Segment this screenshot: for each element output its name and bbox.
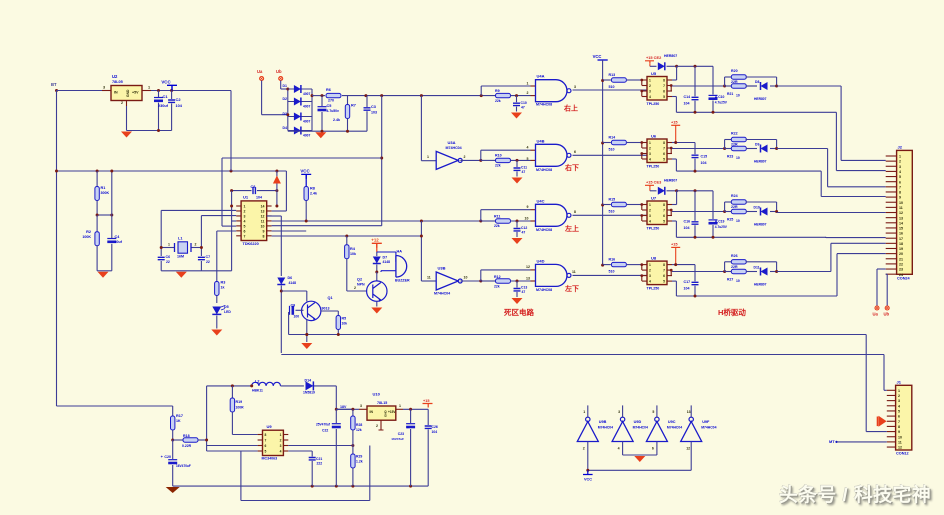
svg-text:R14: R14 xyxy=(609,136,616,140)
svg-text:2.4k: 2.4k xyxy=(310,192,317,196)
svg-text:TPL250: TPL250 xyxy=(647,102,660,106)
svg-text:R21: R21 xyxy=(727,92,733,96)
svg-text:10k: 10k xyxy=(342,322,348,326)
svg-text:19: 19 xyxy=(899,247,903,251)
led D5 LED xyxy=(212,307,221,315)
svg-text:VCC: VCC xyxy=(161,80,171,85)
svg-text:GND: GND xyxy=(126,89,130,97)
svg-text:4007: 4007 xyxy=(303,120,311,124)
wire row4 output to J2 pin18 xyxy=(777,271,831,273)
svg-text:6: 6 xyxy=(244,229,246,233)
svg-text:R8: R8 xyxy=(310,187,315,191)
svg-text:1: 1 xyxy=(899,155,901,159)
wire PSU left vertical xyxy=(206,386,208,451)
svg-text:C20: C20 xyxy=(164,455,171,459)
power arrow J1 pin7 xyxy=(877,417,879,427)
svg-text:R24: R24 xyxy=(731,194,738,198)
svg-text:4007: 4007 xyxy=(303,134,311,138)
svg-text:4: 4 xyxy=(244,219,246,223)
wire crystal to pin3 xyxy=(201,215,236,217)
wire row2 output to J2 pin7 xyxy=(777,148,828,150)
svg-text:Ub: Ub xyxy=(884,312,890,317)
svg-text:12k: 12k xyxy=(356,428,362,432)
svg-text:U2: U2 xyxy=(112,74,118,79)
diode D4 4007 xyxy=(288,130,312,132)
ic U1 TDK6220 xyxy=(241,201,267,241)
nand gate U4D M74HC08 xyxy=(531,269,536,271)
node R17 bottom xyxy=(171,439,174,442)
svg-text:R20: R20 xyxy=(731,69,738,73)
ground under C12 xyxy=(512,238,523,244)
svg-text:12: 12 xyxy=(898,446,902,450)
svg-text:右上: 右上 xyxy=(563,104,578,113)
svg-text:1: 1 xyxy=(649,263,651,267)
wire row1 rail to J2 pin4 xyxy=(835,112,837,170)
svg-text:R27: R27 xyxy=(727,278,733,282)
svg-text:2: 2 xyxy=(354,286,356,290)
svg-text:C16: C16 xyxy=(684,220,691,224)
wire signal to U3B xyxy=(420,221,422,281)
svg-text:22k: 22k xyxy=(494,224,500,228)
svg-text:+: + xyxy=(407,426,409,430)
svg-text:1: 1 xyxy=(280,433,282,437)
connector J2 CON24 xyxy=(897,150,913,274)
wire gnd rail under U2 xyxy=(126,106,128,131)
svg-text:4: 4 xyxy=(618,447,620,451)
svg-text:1K: 1K xyxy=(176,419,181,423)
svg-text:TPL250: TPL250 xyxy=(647,287,660,291)
wire +15 node to pin8 U5 xyxy=(675,65,678,68)
svg-text:9: 9 xyxy=(898,430,900,434)
wire U3A out to U4B junction xyxy=(460,159,480,161)
svg-text:510: 510 xyxy=(609,270,615,274)
capacitor C26 104 xyxy=(427,409,429,425)
svg-text:R6: R6 xyxy=(326,88,331,92)
svg-text:HER807: HER807 xyxy=(754,97,767,101)
capacitor C23 16V47uF xyxy=(410,409,412,423)
resistor R26 22R xyxy=(724,262,726,272)
svg-text:5: 5 xyxy=(663,158,665,162)
wire bridge gnd rail xyxy=(288,130,367,132)
svg-text:9: 9 xyxy=(527,205,529,209)
svg-text:100R: 100R xyxy=(236,406,245,410)
terminal Ua xyxy=(260,77,264,81)
svg-text:13: 13 xyxy=(526,277,530,281)
wire long line to J1 pin9 xyxy=(289,334,867,336)
wire crystal right vertical xyxy=(200,216,202,256)
wire bridge left rail xyxy=(287,89,289,131)
svg-text:1: 1 xyxy=(898,389,900,393)
svg-text:10k: 10k xyxy=(350,252,356,256)
wire BT to U2 input xyxy=(57,90,103,92)
wire inverter quad bottom xyxy=(588,469,691,471)
svg-text:U6: U6 xyxy=(651,134,657,139)
capacitor C3 103 xyxy=(366,96,368,107)
svg-text:MT: MT xyxy=(829,439,835,444)
resistor R11 22k xyxy=(481,220,496,222)
svg-text:5: 5 xyxy=(265,450,267,454)
terminal Ub J2 xyxy=(886,273,888,275)
svg-text:2: 2 xyxy=(280,439,282,443)
wire U8 pin5 down xyxy=(672,280,676,282)
svg-text:13: 13 xyxy=(687,410,691,414)
svg-text:C15: C15 xyxy=(701,155,708,159)
wire pin8 node ext U6 xyxy=(676,142,695,144)
svg-text:左下: 左下 xyxy=(564,284,579,293)
ic U9 MC34063 xyxy=(263,430,284,455)
svg-text:1: 1 xyxy=(649,141,651,145)
svg-text:23: 23 xyxy=(899,268,903,272)
svg-text:510: 510 xyxy=(609,148,615,152)
resistor R3 1k xyxy=(215,282,219,296)
ground under crystal xyxy=(176,272,187,278)
wire U9 right feedback xyxy=(288,445,353,447)
wire pin12 to D6 xyxy=(267,215,282,217)
svg-text:U3A: U3A xyxy=(448,140,456,145)
svg-text:25V470uf: 25V470uf xyxy=(316,423,331,427)
wire U6 pin7 to output network xyxy=(672,148,725,150)
svg-text:230uf: 230uf xyxy=(158,104,169,108)
svg-text:VCC: VCC xyxy=(584,478,592,482)
svg-text:24: 24 xyxy=(899,273,903,277)
power +12 buzzer xyxy=(372,243,382,248)
svg-text:+15 CE2: +15 CE2 xyxy=(646,55,662,60)
svg-text:5: 5 xyxy=(663,95,665,99)
svg-text:0.22R: 0.22R xyxy=(182,444,192,448)
svg-text:4007: 4007 xyxy=(303,105,311,109)
svg-text:Ua: Ua xyxy=(257,69,263,74)
svg-text:510: 510 xyxy=(609,210,615,214)
svg-text:右下: 右下 xyxy=(564,163,579,172)
wire row1 output to J2 pin2 xyxy=(777,85,842,87)
wire U7 pin5 down xyxy=(672,220,676,222)
resistor R24 22R xyxy=(724,202,726,212)
svg-text:R11: R11 xyxy=(494,215,500,219)
svg-text:100K: 100K xyxy=(82,235,91,239)
wire inverter quad middle gnd xyxy=(623,454,657,456)
svg-text:R18: R18 xyxy=(183,434,190,438)
svg-text:C12: C12 xyxy=(521,226,527,230)
svg-text:47: 47 xyxy=(522,290,526,294)
resistor R23 10 xyxy=(725,148,732,150)
wire U2 output to VCC rail xyxy=(151,90,231,92)
svg-text:M74HC04: M74HC04 xyxy=(667,426,682,430)
svg-text:2: 2 xyxy=(899,160,901,164)
svg-text:L2: L2 xyxy=(255,380,259,384)
svg-text:C11: C11 xyxy=(521,166,527,170)
capacitor C4 10uf xyxy=(111,171,113,238)
ground under D5 xyxy=(211,330,222,336)
power VCC inverter quad xyxy=(583,470,593,474)
wire crystal left vertical xyxy=(160,210,162,256)
wire U4C junction xyxy=(479,220,482,223)
svg-text:CON12: CON12 xyxy=(896,452,909,456)
svg-text:4: 4 xyxy=(649,220,651,224)
svg-text:U3B: U3B xyxy=(438,266,446,271)
resistor R4 10k xyxy=(346,236,348,245)
svg-text:C2: C2 xyxy=(176,97,182,102)
svg-text:22R: 22R xyxy=(731,205,738,209)
svg-text:6: 6 xyxy=(898,415,900,419)
diode D11 HER807 xyxy=(746,271,757,273)
capacitor C9 100 xyxy=(296,309,304,311)
wire left feed to R17 xyxy=(57,405,173,407)
svg-text:6: 6 xyxy=(663,214,665,218)
resistor R29 1.2k xyxy=(352,446,354,455)
svg-text:8: 8 xyxy=(663,79,665,83)
resistor R13 510 xyxy=(603,79,611,81)
ground inverter quad xyxy=(634,456,645,462)
wire pin11 row long xyxy=(272,220,482,222)
svg-text:C1: C1 xyxy=(163,94,169,99)
svg-text:2: 2 xyxy=(121,101,123,105)
svg-text:8: 8 xyxy=(663,203,665,207)
wire R4 to Q2 base xyxy=(347,290,367,292)
wire U5 pin7 to output network xyxy=(672,85,725,87)
svg-text:U5: U5 xyxy=(651,71,657,76)
capacitor C20 16V470uF xyxy=(172,440,174,459)
svg-text:10: 10 xyxy=(898,435,902,439)
ground under C10 xyxy=(511,113,522,119)
svg-text:1: 1 xyxy=(649,79,651,83)
svg-text:MC34063: MC34063 xyxy=(262,457,278,461)
resistor R15 510 xyxy=(603,204,611,206)
svg-text:U9F: U9F xyxy=(702,420,710,424)
svg-text:M74HC04: M74HC04 xyxy=(446,146,462,150)
svg-text:100: 100 xyxy=(294,315,300,319)
svg-text:10uf: 10uf xyxy=(115,240,123,244)
capacitor C1 230uf xyxy=(158,91,160,98)
svg-text:2: 2 xyxy=(649,209,651,213)
svg-text:7: 7 xyxy=(898,420,900,424)
svg-text:J1: J1 xyxy=(897,380,902,385)
capacitor C7 22 xyxy=(198,257,205,259)
diode D3 4007 xyxy=(288,116,312,118)
svg-text:HER807: HER807 xyxy=(754,160,767,164)
svg-text:A.C10: A.C10 xyxy=(715,95,725,99)
svg-text:R23: R23 xyxy=(727,155,733,159)
wire BT vertical down left side xyxy=(56,91,58,407)
svg-text:H桥驱动: H桥驱动 xyxy=(718,307,746,317)
svg-text:7: 7 xyxy=(244,234,246,238)
wire row3 rail to J2 pin17 xyxy=(826,237,886,239)
svg-text:78L05: 78L05 xyxy=(112,80,123,84)
resistor R5 10k xyxy=(321,310,338,312)
svg-text:300K: 300K xyxy=(101,191,110,195)
svg-text:4007: 4007 xyxy=(303,92,311,96)
svg-text:VCC: VCC xyxy=(300,169,310,174)
svg-text:4: 4 xyxy=(527,146,529,150)
wire U6 bottom rail to J2 pin9 xyxy=(676,170,821,172)
svg-text:8: 8 xyxy=(263,234,265,238)
svg-text:U7: U7 xyxy=(651,196,657,201)
svg-text:12: 12 xyxy=(686,447,690,451)
svg-text:U4C: U4C xyxy=(537,199,545,204)
svg-text:104: 104 xyxy=(432,430,438,434)
svg-text:3: 3 xyxy=(574,85,576,89)
svg-text:2: 2 xyxy=(649,84,651,88)
inverter U9B M74HC04 xyxy=(577,422,598,442)
resistor R21 10 xyxy=(725,85,732,87)
resistor R12 22k xyxy=(481,280,496,282)
svg-text:16V470uF: 16V470uF xyxy=(176,464,191,468)
svg-text:A.C19: A.C19 xyxy=(715,220,725,224)
svg-text:HER807: HER807 xyxy=(754,223,767,227)
svg-text:3: 3 xyxy=(649,90,651,94)
svg-text:+15: +15 xyxy=(671,120,678,125)
svg-text:D1: D1 xyxy=(283,84,288,88)
svg-text:4: 4 xyxy=(899,170,901,174)
svg-text:16V47uF: 16V47uF xyxy=(391,437,404,441)
svg-text:10: 10 xyxy=(736,94,740,98)
svg-text:22: 22 xyxy=(899,262,903,266)
svg-text:R16: R16 xyxy=(609,258,616,262)
wire pin9 stub xyxy=(272,230,307,232)
svg-text:C22: C22 xyxy=(322,429,328,433)
svg-text:M74HC04: M74HC04 xyxy=(434,292,450,296)
svg-text:1: 1 xyxy=(399,404,401,408)
svg-text:Q1: Q1 xyxy=(328,296,333,300)
svg-text:7: 7 xyxy=(663,84,665,88)
svg-text:7: 7 xyxy=(899,185,901,189)
capacitor C22 25V470uf xyxy=(335,409,337,423)
ground under C13 xyxy=(512,298,523,304)
wire pin10 row to bridge signal xyxy=(272,225,382,227)
svg-text:22k: 22k xyxy=(495,164,501,168)
svg-text:M74HC08: M74HC08 xyxy=(536,103,552,107)
svg-text:14: 14 xyxy=(261,205,265,209)
svg-text:C9: C9 xyxy=(291,304,296,308)
svg-text:17: 17 xyxy=(899,237,903,241)
svg-text:D10: D10 xyxy=(754,206,760,210)
svg-text:104: 104 xyxy=(256,196,262,200)
diode D2 4007 xyxy=(288,101,312,103)
resistor R22 22R xyxy=(724,140,726,149)
svg-text:HBK11: HBK11 xyxy=(252,389,263,393)
svg-text:10: 10 xyxy=(261,224,265,228)
resistor R18 0.22R xyxy=(173,439,183,441)
diode D1 4007 xyxy=(288,88,312,90)
svg-text:6: 6 xyxy=(574,150,576,154)
svg-text:R1: R1 xyxy=(101,186,106,190)
svg-text:6: 6 xyxy=(899,180,901,184)
svg-text:10: 10 xyxy=(525,217,529,221)
svg-text:D3: D3 xyxy=(283,112,288,116)
svg-text:7: 7 xyxy=(663,147,665,151)
svg-text:D6: D6 xyxy=(288,276,293,280)
wire C8 to pin14 xyxy=(276,171,278,206)
svg-text:左上: 左上 xyxy=(564,224,579,233)
svg-text:13: 13 xyxy=(899,216,903,220)
wire PSU gnd rail xyxy=(173,485,429,487)
svg-text:2: 2 xyxy=(649,147,651,151)
wire crystal to pin2 xyxy=(161,209,236,211)
svg-text:U9C: U9C xyxy=(668,420,676,424)
capacitor C12 47 xyxy=(516,221,518,228)
svg-text:4.7u25V: 4.7u25V xyxy=(715,225,728,229)
svg-text:1k: 1k xyxy=(221,286,225,290)
capacitor C10 47 xyxy=(516,96,518,103)
svg-text:2: 2 xyxy=(195,243,197,247)
wire U9 left pin wires xyxy=(207,445,258,447)
svg-text:C13: C13 xyxy=(521,286,527,290)
optocoupler U8 TPL250 xyxy=(647,261,667,285)
svg-text:2: 2 xyxy=(649,269,651,273)
capacitor C14 104 xyxy=(694,66,696,96)
svg-text:C14: C14 xyxy=(684,95,691,99)
svg-text:+5V: +5V xyxy=(132,91,139,95)
svg-text:104: 104 xyxy=(701,161,707,165)
svg-text:21: 21 xyxy=(899,257,903,261)
svg-text:20: 20 xyxy=(899,252,903,256)
wire U9 bottom loop xyxy=(240,451,242,501)
svg-text:2.4k: 2.4k xyxy=(333,118,340,122)
connector J1 CON12 xyxy=(896,385,912,450)
svg-text:3: 3 xyxy=(280,444,282,448)
svg-text:U9D: U9D xyxy=(634,420,642,424)
svg-text:4: 4 xyxy=(280,450,282,454)
capacitor C5 4.7u50v xyxy=(321,96,323,106)
svg-text:6: 6 xyxy=(663,90,665,94)
wire Q2 emitter xyxy=(376,301,378,306)
svg-text:2: 2 xyxy=(464,155,466,159)
svg-text:8: 8 xyxy=(574,210,576,214)
svg-text:1: 1 xyxy=(649,203,651,207)
svg-text:7: 7 xyxy=(265,439,267,443)
optocoupler U6 TPL250 xyxy=(647,139,667,163)
svg-text:18: 18 xyxy=(899,242,903,246)
svg-text:R25: R25 xyxy=(727,218,733,222)
svg-text:1.2k: 1.2k xyxy=(356,460,363,464)
svg-text:4148: 4148 xyxy=(289,281,297,285)
svg-text:11: 11 xyxy=(261,219,265,223)
wire P1 line to pin5 riser xyxy=(222,157,382,159)
resistor R27 10 xyxy=(725,271,732,273)
svg-text:J2: J2 xyxy=(898,145,903,150)
svg-text:U10: U10 xyxy=(373,392,381,397)
svg-text:2: 2 xyxy=(376,424,378,428)
capacitor C13 47 xyxy=(516,281,518,288)
svg-text:12: 12 xyxy=(526,265,530,269)
wire U3B output to U4D inputs xyxy=(460,280,480,282)
svg-text:U4B: U4B xyxy=(537,139,545,144)
capacitor C21 222 xyxy=(288,450,312,452)
svg-text:U8: U8 xyxy=(651,256,657,261)
svg-text:22: 22 xyxy=(166,260,170,264)
power VCC top-left xyxy=(167,85,177,90)
svg-text:5: 5 xyxy=(244,224,246,228)
svg-text:1: 1 xyxy=(427,155,429,159)
svg-text:U4A: U4A xyxy=(537,74,545,79)
wire VCC rail y=172 xyxy=(57,170,287,172)
svg-text:C21: C21 xyxy=(316,457,322,461)
svg-text:3: 3 xyxy=(649,152,651,156)
wire row4 rail to J2 pin20 xyxy=(836,254,838,296)
svg-text:Q2: Q2 xyxy=(357,278,362,282)
wire U8 pin7 to output network xyxy=(672,271,725,273)
svg-text:U4D: U4D xyxy=(537,259,545,264)
wire long line into J1 pin9 xyxy=(865,335,867,432)
svg-text:22: 22 xyxy=(206,260,210,264)
svg-text:R12: R12 xyxy=(494,275,501,279)
svg-text:C5: C5 xyxy=(327,104,332,108)
resistor R16 510 xyxy=(603,264,611,266)
capacitor C8 xyxy=(232,190,252,192)
svg-text:死区电路: 死区电路 xyxy=(504,307,534,317)
svg-text:BT: BT xyxy=(51,82,57,87)
capacitor C10A 4.7u25V xyxy=(712,66,714,94)
wire U4C pin9 riser xyxy=(480,210,482,221)
